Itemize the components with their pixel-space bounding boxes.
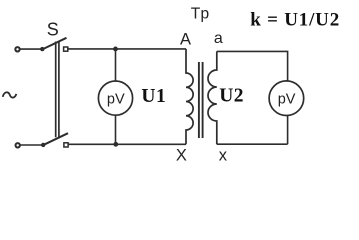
switch S fixed contact (top pole) xyxy=(64,47,68,51)
wire: secondary bottom rail (pV2 back to x) xyxy=(217,143,288,145)
svg-text:S: S xyxy=(47,20,59,40)
switch S pivot dot (top pole) xyxy=(40,47,44,51)
svg-text:Tp: Tp xyxy=(191,5,210,22)
switch S blade (top pole) xyxy=(42,38,67,50)
transformer Tp secondary winding (a-x) xyxy=(208,51,217,144)
svg-text:pV: pV xyxy=(107,91,125,107)
wire: voltmeter pV1 bottom lead xyxy=(115,115,117,144)
svg-text:x: x xyxy=(219,147,228,165)
wire: bottom rail (switch to transformer primary terminal X) xyxy=(69,143,186,145)
AC source symbol ~ xyxy=(3,92,17,97)
switch S pivot dot (bottom pole) xyxy=(41,143,45,147)
switch S fixed contact (bottom pole) xyxy=(64,143,68,147)
svg-text:k = U1/U2: k = U1/U2 xyxy=(250,9,340,30)
voltmeter pV1 (primary, U1) xyxy=(98,81,132,115)
voltmeter pV2 (secondary, U2) xyxy=(269,81,304,116)
svg-text:A: A xyxy=(180,30,191,48)
wire: voltmeter pV1 top lead xyxy=(115,49,117,81)
svg-text:pV: pV xyxy=(278,92,296,108)
wire: secondary top rail (a to voltmeter pV2) xyxy=(217,51,288,81)
junction dot: voltmeter pV1 bottom node xyxy=(113,142,118,147)
AC source terminal (bottom) xyxy=(16,143,20,147)
transformer Tp core (double bar) xyxy=(199,62,203,138)
svg-text:a: a xyxy=(214,30,223,47)
wire: top terminal to switch S pivot xyxy=(20,48,42,50)
svg-text:U2: U2 xyxy=(219,86,244,107)
svg-text:U1: U1 xyxy=(141,86,166,107)
wire: bottom terminal to switch S pivot xyxy=(20,144,42,146)
wire: voltmeter pV2 bottom lead xyxy=(287,116,289,145)
transformer Tp primary winding (A-X) xyxy=(186,49,193,144)
AC source terminal (top) xyxy=(15,47,19,51)
switch S mechanical link (double line) xyxy=(56,42,59,138)
wire: top rail (switch to transformer primary terminal A) xyxy=(68,48,186,50)
svg-text:X: X xyxy=(176,147,187,165)
junction dot: voltmeter pV1 top node xyxy=(113,47,118,52)
switch S blade (bottom pole) xyxy=(43,133,68,145)
